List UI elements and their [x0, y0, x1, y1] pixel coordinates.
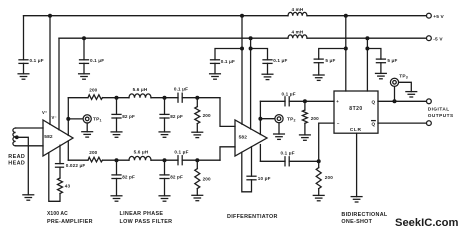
wire node B down to C9 [164, 98, 166, 115]
wire -5V to one-shot [366, 38, 368, 91]
svg-text:200: 200 [89, 150, 97, 155]
wire +5V to one-shot [345, 16, 347, 91]
label pin Q-bar [372, 121, 376, 127]
test point TP3 [390, 78, 398, 86]
wire V+ supply to preamp [49, 16, 51, 125]
wire C13 to node F [182, 159, 220, 161]
wire node E down to C12 [164, 160, 166, 175]
wire V- supply to preamp [58, 38, 60, 130]
svg-text:LINEAR PHASE: LINEAR PHASE [120, 211, 164, 217]
junction V- to C4 [249, 47, 253, 51]
wire C9 to ground [164, 118, 166, 132]
terminal +5V [427, 13, 432, 18]
wire node A down to C8 [116, 98, 118, 115]
wire C11 to ground [116, 179, 118, 196]
wire filter top row input [68, 97, 88, 99]
junction -5V rail to C2 [82, 36, 86, 40]
svg-text:0.022 μF: 0.022 μF [66, 163, 86, 168]
node A junction [115, 96, 119, 100]
wire C5 to ground [318, 63, 320, 75]
capacitor C4 0.1 uF [263, 60, 272, 64]
svg-text:5.6 μH: 5.6 μH [133, 87, 148, 92]
ground at TP3 [406, 92, 417, 97]
ground under C4 [262, 74, 273, 79]
junction node H [317, 159, 321, 163]
ground under CLR [351, 197, 362, 202]
svg-text:82 pF: 82 pF [170, 114, 183, 119]
terminal Q-bar output [427, 121, 432, 126]
svg-text:0.1 μF: 0.1 μF [90, 58, 104, 63]
wire diff output A to C15 [260, 100, 285, 102]
resistor R4 200 shunt bottom [195, 169, 200, 189]
svg-text:+: + [336, 99, 339, 104]
wire C8 to ground [116, 118, 118, 132]
junction +5V rail to differentiator V+ [240, 14, 244, 18]
junction +5V rail to one-shot supply [344, 14, 348, 18]
wire +5V rail left segment [24, 15, 289, 17]
wire TP2 tap [260, 118, 275, 120]
wire TP1 tap [68, 118, 83, 120]
svg-text:82 pF: 82 pF [170, 174, 183, 179]
node B junction [163, 96, 167, 100]
resistor R3 200 bottom row [88, 157, 103, 162]
junction +5V rail to preamp V+ [48, 14, 52, 18]
junction TP3 tap [393, 99, 397, 103]
svg-text:PRE-AMPLIFIER: PRE-AMPLIFIER [47, 219, 93, 225]
svg-text:0.1 μF: 0.1 μF [174, 86, 188, 91]
wire R3 to node D [103, 159, 130, 161]
svg-text:200: 200 [325, 175, 333, 180]
svg-text:0.1 μF: 0.1 μF [221, 59, 235, 64]
ground under C11 [111, 196, 122, 201]
wire C12 to ground [164, 179, 166, 196]
wire +5V rail down to C1 [23, 16, 25, 60]
wire C15 to one-shot + input [289, 100, 334, 102]
ground under R7 [313, 195, 324, 200]
svg-text:READ: READ [8, 154, 25, 160]
svg-text:5.6 μH: 5.6 μH [134, 149, 149, 154]
svg-text:-5 V: -5 V [433, 36, 443, 42]
inductor L4 5.6 uH bottom row [129, 156, 151, 160]
capacitor C6 5 uF [376, 59, 385, 63]
resistor R7 200 [316, 168, 321, 189]
junction TP1 tap [66, 117, 70, 121]
svg-text:SeekIC.com: SeekIC.com [395, 217, 458, 229]
wire Q output [378, 100, 427, 102]
capacitor C1 0.1 uF [19, 60, 28, 64]
wire V- supply to differentiator [250, 38, 252, 129]
svg-text:200: 200 [311, 116, 319, 121]
capacitor C10 0.1 uF top row [178, 93, 182, 102]
wire L3 to node B [151, 97, 178, 99]
svg-text:DIGITAL: DIGITAL [428, 106, 450, 111]
wire R4 to ground [196, 189, 198, 196]
svg-text:HEAD: HEAD [8, 161, 25, 167]
svg-text:582: 582 [239, 134, 248, 140]
wire C3 tap [215, 49, 242, 60]
ground under TP2 [274, 134, 285, 139]
capacitor C8 82 pF [112, 114, 121, 118]
svg-text:82 pF: 82 pF [122, 174, 135, 179]
svg-text:+5 V: +5 V [433, 14, 444, 20]
ground under R4 [192, 195, 203, 200]
ground under C2 [79, 74, 90, 79]
op-amp U1 582 preamp [43, 120, 73, 156]
resistor R6 200 [302, 110, 307, 123]
ground under C3 [210, 74, 221, 79]
svg-text:200: 200 [89, 88, 97, 93]
svg-text:ONE-SHOT: ONE-SHOT [341, 219, 372, 225]
wire -5V rail left segment [59, 37, 288, 39]
test point TP1 [83, 115, 91, 123]
svg-text:0.1 μF: 0.1 μF [30, 58, 44, 63]
svg-text:LOW PASS FILTER: LOW PASS FILTER [120, 219, 173, 225]
junction C6 tap [365, 47, 369, 51]
wire TP1 to ground [86, 123, 88, 132]
capacitor C9 82 pF [160, 114, 169, 118]
wire C6 tap [367, 49, 381, 60]
wire TP3 to ground [399, 82, 412, 91]
wire filter top to diff + input [220, 98, 235, 127]
svg-text:X100 AC: X100 AC [47, 211, 68, 217]
wire node D down to C11 [116, 160, 118, 175]
wire R2 to ground [196, 124, 198, 133]
wire C1 to ground [23, 63, 25, 73]
svg-text:200: 200 [203, 177, 211, 182]
wire node H down to R7 [318, 161, 320, 167]
wire -5V rail right segment [307, 37, 427, 39]
op-amp U2 582 differentiator [235, 120, 267, 156]
svg-text:Q: Q [372, 121, 376, 126]
wire center tap to ground [17, 137, 29, 195]
svg-text:Q: Q [372, 99, 376, 104]
svg-text:TP1: TP1 [93, 117, 102, 123]
wire diff gain pin right down to C14 [251, 147, 253, 177]
ground under C1 [18, 74, 29, 79]
ground under C6 [376, 73, 387, 78]
wire C16 to node H [289, 160, 319, 162]
svg-text:V⁻: V⁻ [52, 115, 57, 120]
wire L4 to node E [151, 159, 178, 161]
wire C4 tap [251, 49, 268, 60]
IC U3 8T20 one-shot box [334, 91, 378, 133]
capacitor C11 82 pF [112, 175, 121, 179]
wire C7 to R5 [59, 167, 61, 178]
wire preamp output B down to filter [67, 141, 69, 160]
capacitor C12 82 pF [160, 175, 169, 179]
svg-text:TP3: TP3 [399, 74, 408, 80]
inductor L2 4 mH on -5V rail [288, 35, 307, 38]
svg-text:BIDIRECTIONAL: BIDIRECTIONAL [341, 212, 388, 218]
wire preamp output A up to filter [67, 98, 69, 136]
inductor L1 4 mH on +5V rail [288, 12, 307, 15]
terminal Q output [427, 99, 432, 104]
capacitor C15 0.1 uF coupling top [285, 97, 289, 106]
junction node G [303, 99, 307, 103]
svg-text:DIFFERENTIATOR: DIFFERENTIATOR [227, 214, 278, 220]
wire C10 to node C [182, 97, 220, 99]
wire CLR to ground [356, 133, 358, 196]
svg-text:10 pF: 10 pF [258, 176, 271, 181]
node E junction [163, 158, 167, 162]
wire node C down to R2 [196, 98, 198, 107]
capacitor C2 0.1 uF [80, 60, 89, 64]
ground under C9 [159, 132, 170, 137]
svg-text:OUTPUTS: OUTPUTS [428, 113, 454, 118]
node F junction [195, 158, 199, 162]
svg-text:5 μF: 5 μF [325, 58, 335, 63]
wire V+ supply to differentiator [241, 16, 243, 125]
wire diff output B to C16 [260, 160, 285, 162]
svg-text:0.1 μF: 0.1 μF [281, 151, 295, 156]
svg-text:82 pF: 82 pF [122, 114, 135, 119]
wire +5V rail right segment [307, 15, 427, 17]
wire diff output B down [259, 145, 261, 162]
wire read head bottom to preamp - input [16, 145, 43, 147]
wire node G down to R6 [304, 101, 306, 110]
wire C14 loop to diff gain pin left [242, 152, 252, 192]
capacitor C3 0.1 uF [211, 60, 220, 64]
wire C3 to ground [214, 63, 216, 73]
node C junction [195, 96, 199, 100]
wire filter bottom to diff - input [220, 147, 235, 160]
wire C6 to ground [380, 63, 382, 74]
svg-text:4 mH: 4 mH [291, 30, 303, 35]
inductor L3 5.6 uH top row [129, 94, 151, 98]
ground under read head [23, 195, 34, 200]
wire read head top to preamp + input [16, 127, 43, 129]
capacitor C14 10 pF [247, 176, 256, 180]
wire C2 to ground [83, 63, 85, 73]
svg-text:0.1 μF: 0.1 μF [282, 91, 296, 96]
wire TP2 to ground [278, 123, 280, 134]
ground under C8 [111, 132, 122, 137]
junction -5V rail to differentiator V- [249, 36, 253, 40]
svg-text:−: − [337, 121, 340, 126]
wire preamp gain pin right down to C7 [59, 145, 61, 163]
svg-text:582: 582 [44, 134, 53, 140]
svg-text:5 μF: 5 μF [387, 58, 397, 63]
svg-text:0.1 μF: 0.1 μF [174, 150, 188, 155]
read head coil [13, 128, 16, 146]
svg-text:8T20: 8T20 [349, 106, 362, 112]
resistor R1 200 top row [88, 95, 103, 100]
ground under R2 [192, 132, 203, 137]
wire R6 to ground [304, 123, 306, 135]
capacitor C16 0.1 uF coupling bottom [285, 157, 289, 166]
wire TP3 stem [394, 86, 396, 101]
resistor R5 43 [58, 178, 63, 194]
ground under C12 [159, 196, 170, 201]
svg-text:CLR: CLR [350, 127, 362, 133]
wire node H up to one-shot - input [319, 123, 334, 161]
wire Q-bar output [378, 122, 427, 124]
junction read head center tap [15, 135, 19, 139]
wire R7 to ground [318, 189, 320, 196]
wire filter bottom row input [68, 159, 88, 161]
junction V+ to C3 [240, 47, 244, 51]
terminal -5V [427, 36, 432, 41]
wire R5 to preamp gain pin left [49, 153, 60, 202]
node D junction [115, 158, 119, 162]
wire C4 to ground [267, 63, 269, 74]
junction TP2 tap [258, 117, 262, 121]
svg-text:V⁺: V⁺ [42, 110, 47, 115]
ground under R6 [300, 135, 311, 140]
junction -5V rail to one-shot line [365, 36, 369, 40]
wire diff output A up [259, 101, 261, 134]
svg-text:4 mH: 4 mH [291, 7, 303, 12]
wire node F down to R4 [196, 160, 198, 168]
svg-text:43: 43 [65, 184, 71, 189]
capacitor C5 5 uF [314, 59, 323, 63]
svg-text:200: 200 [203, 113, 211, 118]
resistor R2 200 shunt top [195, 107, 200, 124]
wire R1 to node A [103, 97, 130, 99]
ground under TP1 [82, 132, 93, 137]
junction C5 tap [344, 47, 348, 51]
test point TP2 [275, 115, 283, 123]
capacitor C13 0.1 uF bottom row [178, 156, 182, 165]
wire -5V rail down to C2 [83, 38, 85, 60]
ground under C5 [313, 75, 324, 80]
capacitor C7 0.022 uF [56, 164, 64, 168]
svg-text:TP2: TP2 [287, 117, 296, 123]
wire C5 tap [319, 49, 346, 60]
svg-text:0.1 μF: 0.1 μF [273, 58, 287, 63]
